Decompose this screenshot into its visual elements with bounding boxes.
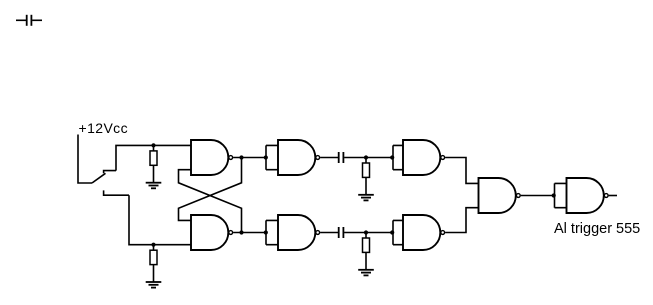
wire U3 input tie: [266, 145, 278, 169]
wire cross U2 out to U1 bottom input: [179, 170, 242, 233]
nand gate U5: [403, 140, 445, 175]
resistor R4: [363, 233, 370, 270]
wire U1 output: [233, 157, 266, 159]
wire supply drop: [78, 135, 92, 184]
resistor R3: [363, 158, 370, 195]
resistor R2: [150, 245, 157, 282]
node U1 output: [239, 155, 243, 159]
ground for R2: [146, 282, 162, 288]
wire U5 input tie: [393, 145, 403, 169]
nand gate U7: [479, 178, 521, 213]
node U6 input: [390, 230, 394, 234]
capacitor C2: [339, 152, 344, 163]
ground for R4: [358, 270, 374, 276]
wire U5 out to U7 top input: [445, 158, 478, 184]
nand gate U2: [191, 215, 233, 250]
wire U6 out to U7 bottom input: [445, 208, 478, 233]
resistor R1: [150, 145, 157, 182]
wire C2 to U5 input: [344, 157, 393, 159]
node U2 output: [239, 230, 243, 234]
wire U4 input tie: [266, 220, 278, 244]
node R1 junction: [151, 143, 155, 147]
wire U4 out to C3: [320, 232, 338, 234]
node R4 junction: [364, 230, 368, 234]
nand gate U3: [278, 140, 320, 175]
wire U8 output: [609, 195, 617, 197]
wire to U2 bottom input: [129, 195, 191, 245]
switch S1 lever: [92, 173, 106, 183]
wire cross U1 out to U2 top input: [179, 158, 242, 221]
node U8 input: [552, 193, 556, 197]
node U5 input: [390, 155, 394, 159]
nand gate U1: [191, 140, 233, 175]
wire U2 output: [233, 232, 266, 234]
nand gate U6: [403, 215, 445, 250]
svg-text:Al trigger 555: Al trigger 555: [554, 221, 640, 237]
svg-text:+12Vcc: +12Vcc: [79, 120, 129, 136]
wire U6 input tie: [393, 220, 403, 244]
node U3 input: [264, 155, 268, 159]
node R2 junction: [151, 243, 155, 247]
ground for R3: [358, 195, 374, 201]
capacitor C1: [16, 15, 42, 26]
capacitor C3: [339, 227, 344, 238]
node R3 junction: [364, 155, 368, 159]
wire C3 to U6 input: [344, 232, 393, 234]
switch S1 lower contact: [104, 190, 129, 195]
node U4 input: [264, 230, 268, 234]
ground for R1: [146, 183, 162, 189]
wire U8 input tie: [555, 183, 567, 207]
wire U3 out to C2: [320, 157, 338, 159]
switch S1 upper contact: [104, 171, 116, 174]
wire U7 out to U8 input: [521, 195, 555, 197]
nand gate U8: [567, 178, 609, 213]
wire to U1 top input: [116, 145, 191, 170]
nand gate U4: [278, 215, 320, 250]
